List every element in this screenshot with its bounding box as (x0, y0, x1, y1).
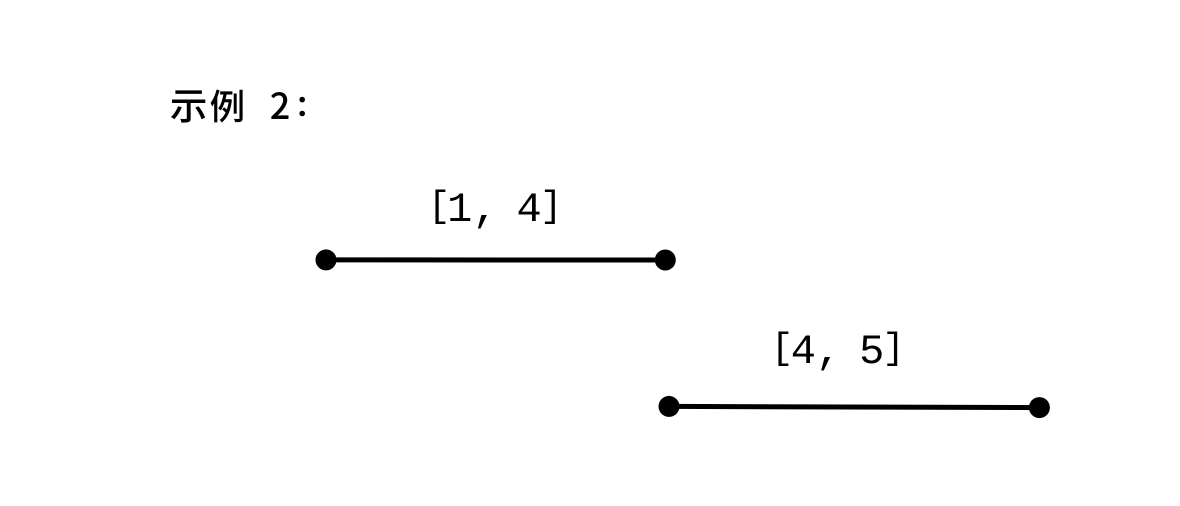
interval line [4, 5] (669, 406, 1039, 407)
title fullwidth colon lower dot (299, 111, 305, 117)
title fullwidth colon upper dot (299, 97, 305, 103)
endpoint dot right of [4, 5] (1029, 397, 1050, 418)
title character 示 (171, 90, 205, 122)
title digit 2 (271, 92, 288, 119)
title character 例 (211, 90, 243, 123)
svg-text:1,4: 1,4 (447, 186, 542, 234)
svg-text:4,5: 4,5 (791, 328, 885, 376)
interval line [1, 4] (326, 257, 665, 262)
endpoint dot left of [1, 4] (316, 249, 337, 270)
endpoint dot right of [1, 4] (655, 250, 676, 271)
endpoint dot left of [4, 5] (659, 396, 680, 417)
